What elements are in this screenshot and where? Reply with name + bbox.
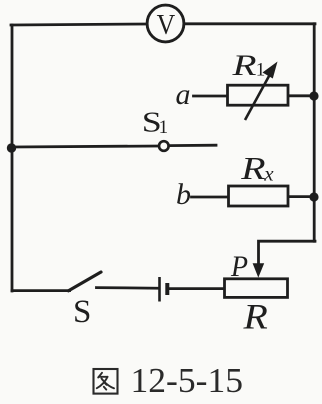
caption: hanzi 图 drawn as glyph	[94, 369, 118, 394]
junction dot at left rail / S1 branch	[7, 143, 16, 152]
wire: top left (to voltmeter)	[11, 24, 147, 25]
resistor R1 arrow shaft	[245, 72, 272, 121]
wire: top right (voltmeter to right rail)	[184, 22, 315, 25]
wire: left rail	[11, 25, 14, 291]
wire: wiper feed from right rail	[259, 241, 316, 264]
wire: bottom left	[12, 289, 70, 292]
resistor R1 arrowhead	[263, 62, 278, 79]
svg-text:R: R	[240, 150, 266, 186]
wiper P arrowhead	[253, 263, 265, 277]
wire: battery to R	[169, 287, 224, 290]
wire: Rx to right rail	[288, 195, 314, 198]
svg-text:P: P	[230, 250, 248, 283]
junction dot at R1 / right rail	[309, 91, 318, 100]
svg-text:S: S	[73, 294, 91, 330]
battery long plate	[158, 277, 161, 302]
wire: node b to Rx	[192, 196, 230, 199]
resistor Rx body	[229, 186, 289, 206]
svg-text:1: 1	[256, 60, 265, 81]
wire: node a to R1	[194, 95, 229, 98]
svg-text:b: b	[176, 178, 191, 211]
svg-text:x: x	[263, 162, 274, 186]
svg-text:a: a	[176, 78, 191, 111]
wire: right rail	[313, 24, 316, 241]
switch S blade	[69, 272, 102, 291]
svg-text:V: V	[157, 10, 176, 41]
switch S1 pivot terminal (open circle)	[159, 141, 169, 151]
wire: middle branch (left rail to S1)	[12, 146, 159, 147]
svg-text:12-5-15: 12-5-15	[131, 361, 244, 400]
junction dot at Rx / right rail	[309, 192, 318, 201]
voltmeter U1 circle	[147, 5, 184, 42]
svg-text:R: R	[231, 49, 256, 82]
resistor R1 body	[228, 85, 289, 105]
rheostat R body	[225, 279, 288, 298]
wire: S1 blade	[169, 144, 216, 147]
wire: R1 to right rail	[288, 94, 314, 97]
svg-text:R: R	[242, 296, 267, 336]
wire: switch S contact to battery	[97, 286, 159, 289]
svg-text:1: 1	[159, 117, 169, 138]
battery short plate	[165, 283, 169, 295]
